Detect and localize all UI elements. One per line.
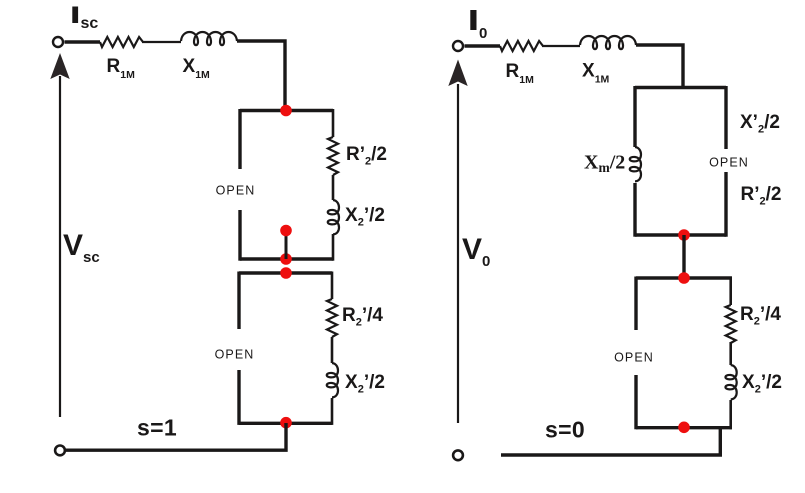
wire: box L1 top edge [240, 109, 333, 112]
wire [682, 235, 685, 278]
inductor X2'/2 (right) [725, 365, 736, 399]
wire: box R2 left upper [634, 277, 637, 331]
resistor R1M (left) [100, 37, 143, 47]
wire: box R1 left upper [633, 86, 636, 147]
svg-text:s=1: s=1 [137, 415, 177, 441]
wire: stub [285, 232, 288, 259]
wire [331, 398, 334, 425]
node junction (red dot) [280, 417, 292, 429]
node junction (red dot) [678, 422, 690, 434]
terminal (top-right, I0) [453, 41, 463, 51]
wire [65, 40, 101, 43]
wire: box L2 bottom edge [239, 422, 332, 425]
wire [332, 109, 335, 137]
svg-text:X2’/2: X2’/2 [742, 372, 782, 396]
svg-text:sc: sc [81, 15, 99, 32]
svg-text:V0: V0 [462, 233, 490, 270]
svg-text:R’2/2: R’2/2 [346, 144, 387, 168]
terminal (top-left, Isc) [53, 37, 63, 47]
svg-text:OPEN: OPEN [216, 183, 256, 197]
svg-text:X2’/2: X2’/2 [345, 372, 385, 396]
terminal (bottom-left) [55, 446, 65, 456]
svg-text:Vsc: Vsc [63, 229, 100, 266]
svg-text:OPEN: OPEN [215, 348, 255, 362]
wire: box R1 right lower [724, 172, 727, 237]
resistor R1M (right) [500, 41, 543, 51]
wire [729, 342, 732, 365]
wire: box R2 bottom edge [636, 426, 732, 429]
resistor R2'/4 (right) [726, 305, 736, 343]
wire: bottom return [66, 423, 287, 450]
node junction (red dot) [280, 253, 292, 265]
wire: box L2 left upper [237, 272, 240, 330]
wire: box L2 left lower [237, 370, 240, 425]
node junction (red dot) [280, 105, 292, 117]
wire: box R1 left lower [633, 183, 636, 237]
wire [237, 41, 285, 110]
wire: box R1 bottom edge [635, 233, 726, 236]
wire: box R2 left lower [634, 375, 637, 429]
inductor X1M (left) [181, 32, 237, 45]
label I_0 [470, 10, 476, 30]
node junction (red dot) [678, 272, 690, 284]
wire [729, 400, 732, 429]
label I_sc [72, 7, 78, 24]
wire [465, 44, 501, 47]
inductor X2'/2 (box L2) [327, 363, 338, 397]
wire: box L1 left upper [238, 109, 241, 169]
wire [729, 277, 732, 306]
svg-text:X2’/2: X2’/2 [345, 205, 385, 229]
inductor X1M (right) [580, 36, 636, 49]
svg-text:s=0: s=0 [545, 417, 585, 443]
svg-text:R1M: R1M [107, 56, 136, 81]
wire: box L1 left lower [238, 210, 241, 261]
wire: box R1 right upper [724, 86, 727, 149]
svg-text:R1M: R1M [506, 61, 535, 86]
terminal (bottom-right circuit) [453, 450, 463, 460]
resistor R2'/4 [327, 299, 337, 337]
node junction (red dot) [678, 229, 690, 241]
svg-text:OPEN: OPEN [614, 351, 654, 365]
wire: box R1 top edge [635, 86, 726, 89]
wire [332, 175, 335, 200]
node junction (red dot) [280, 267, 292, 279]
wire: box L2 top edge [239, 271, 332, 274]
svg-text:R2’/4: R2’/4 [342, 305, 383, 329]
svg-text:X’2/2: X’2/2 [740, 112, 780, 136]
wire: Vsc arrow shaft [59, 76, 61, 417]
wire: box L1 bottom edge [240, 257, 333, 260]
wire [332, 234, 335, 261]
inductor X2'/2 (box L1) [328, 200, 339, 234]
wire [331, 272, 334, 300]
svg-text:0: 0 [479, 25, 487, 42]
wire [636, 45, 683, 87]
wire: bottom return (right) [501, 428, 720, 455]
node (red dot on stub) [280, 225, 292, 237]
arrowhead V0 [448, 60, 467, 87]
wire: box R2 top edge [636, 276, 732, 279]
wire: V0 arrow shaft [457, 84, 459, 423]
svg-text:X1M: X1M [582, 61, 610, 86]
arrowhead Vsc [50, 53, 69, 79]
svg-text:R’2/2: R’2/2 [741, 184, 782, 208]
wire [542, 45, 580, 47]
svg-text:X1M: X1M [183, 56, 211, 81]
wire [331, 337, 334, 363]
svg-text:R2’/4: R2’/4 [740, 304, 781, 328]
wire [142, 41, 181, 43]
inductor Xm/2 [630, 147, 641, 181]
resistor R'2/2 [328, 137, 338, 175]
svg-text:Xm/2: Xm/2 [584, 152, 625, 176]
svg-text:OPEN: OPEN [709, 155, 749, 169]
